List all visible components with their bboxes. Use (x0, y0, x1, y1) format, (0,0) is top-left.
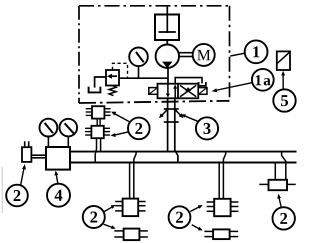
label circle 2 (far left) (6, 185, 28, 207)
label circle 2 (bottom right) (273, 207, 295, 229)
relief valve (106, 70, 119, 86)
label circle 5 (273, 89, 295, 111)
label circle 2 (bottom left) (83, 206, 105, 228)
leader 5 (281, 71, 285, 89)
enclosure border (dash-dot box of pump station 1) (79, 6, 230, 103)
leader 2 (bottom right) (277, 194, 281, 208)
pressure gauge (top) (129, 48, 148, 79)
label circle 1a (252, 69, 274, 91)
column A lower distributor (114, 229, 148, 241)
gauge A (40, 119, 58, 147)
column B lower distributor (204, 229, 238, 239)
oil tank (155, 15, 179, 41)
label circle 2 (mid) (128, 118, 150, 140)
label circle 2 (bottom mid) (169, 206, 191, 228)
pump drop line (167, 68, 169, 84)
right solenoid (198, 88, 207, 95)
motor M (193, 44, 215, 66)
leader 3 (181, 114, 198, 121)
label circle 1 (245, 40, 268, 63)
component 5 (level indicator) (277, 51, 290, 70)
valve left-position down arrow (166, 84, 170, 98)
distributor stack lower (85, 126, 110, 138)
column B riser pipes (219, 152, 226, 199)
filler plug (2) (22, 141, 46, 162)
connector pipes between stacked distributors (97, 119, 100, 126)
branch arrow left (159, 109, 168, 118)
relief drain pipe (95, 77, 106, 88)
lubrication pump block (4) (46, 147, 70, 170)
suction pipe into tank (166, 6, 168, 33)
page edge artifact (1, 167, 3, 213)
right distributor (259, 180, 295, 190)
pump stub (166, 40, 168, 45)
leader 1 (230, 53, 245, 56)
leader 1a (212, 83, 252, 93)
coupling (179, 53, 193, 57)
relief valve spring (109, 86, 116, 96)
column B upper distributor (207, 199, 239, 216)
pilot dashed line of relief valve (113, 63, 128, 78)
column A riser pipes (130, 152, 137, 199)
union ticks on main lines (164, 109, 179, 122)
leader 4 (54, 171, 58, 184)
valve left-position up arrow (173, 84, 177, 98)
label circle 3 (196, 117, 218, 139)
upper manifold line (70, 151, 297, 153)
pressure line (119, 77, 168, 79)
mini tank (valve drain) (199, 82, 206, 86)
directional valve body (1a) (158, 84, 199, 99)
tank symbol (relief drain) (89, 87, 101, 93)
right riser pipes (275, 152, 286, 180)
column A upper distributor (115, 199, 145, 217)
leaders 2 (stacked distributors) (110, 112, 129, 138)
leaders 2 (column B) (190, 205, 203, 231)
pump P (156, 45, 179, 69)
stack riser pipes to manifold (95, 138, 100, 162)
valve right-position crossed arrows (180, 85, 196, 96)
lower manifold line (70, 162, 297, 164)
leaders 2 (column A) (104, 205, 116, 229)
main line right (to lower manifold, with hop) (175, 98, 178, 162)
label circle 4 (47, 184, 70, 207)
distributor stack upper (above manifold) (86, 106, 111, 118)
valve tank return line (175, 78, 202, 84)
left solenoid (149, 88, 158, 95)
leader 2 (filler plug) (21, 164, 26, 186)
main line left (to upper manifold) (167, 98, 169, 151)
gauge B (60, 119, 78, 147)
branch arrow right (175, 109, 184, 118)
